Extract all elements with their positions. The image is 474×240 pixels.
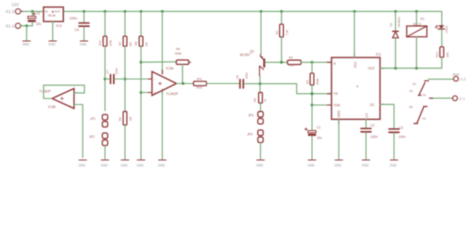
svg-text:K1: K1: [421, 17, 425, 21]
svg-text:C7: C7: [105, 69, 109, 73]
svg-text:JP3: JP3: [248, 114, 254, 118]
wire R5 to JP3: [260, 103, 262, 112]
wire feedback to output: [182, 65, 184, 84]
resistor R2 (vertical pull-up x=281.5): [281, 11, 283, 24]
svg-text:10u: 10u: [317, 136, 323, 140]
svg-text:+: +: [69, 105, 71, 109]
svg-text:THR: THR: [334, 103, 341, 107]
resistor R6 (divider bottom, x=125): [123, 112, 127, 126]
resistor R13 390 (vertical): [440, 47, 444, 57]
ground row: GND x=82.7: [79, 159, 86, 161]
ground GND x=312: [308, 159, 315, 161]
svg-text:7,2k: 7,2k: [285, 29, 289, 35]
wire R10 to C8: [207, 83, 240, 85]
svg-text:1,2k: 1,2k: [289, 63, 295, 67]
wire contact to X2-2: [429, 78, 454, 80]
ground GND x=366: [362, 159, 369, 161]
svg-text:O1: O1: [422, 93, 426, 97]
svg-text:100n: 100n: [115, 67, 119, 74]
wire IC3B +input to gnd: [74, 105, 83, 158]
svg-text:100n: 100n: [245, 72, 249, 79]
svg-text:1N4004: 1N4004: [397, 17, 401, 28]
svg-text:R13: R13: [435, 52, 439, 58]
wire feedback row: [141, 61, 176, 63]
node K1 coil bottom junction: [415, 67, 418, 70]
regulator IC4 box: [44, 7, 64, 21]
svg-text:GND: GND: [337, 110, 341, 118]
svg-text:K1: K1: [410, 89, 414, 93]
svg-text:X1-2: X1-2: [6, 9, 16, 14]
svg-text:BC557: BC557: [240, 53, 250, 57]
wire R3 to R junction: [301, 61, 312, 63]
svg-text:78L05: 78L05: [48, 13, 56, 17]
capacitor C8 100n (series, horizontal): [240, 80, 243, 89]
svg-text:VCC: VCC: [354, 61, 358, 68]
svg-text:S2: S2: [409, 105, 413, 109]
svg-text:GND: GND: [48, 42, 56, 46]
wire C8 to collector node and jog to TR row: [244, 84, 332, 94]
ground GND under IC4: [49, 40, 56, 42]
ground GND under X1: [23, 40, 30, 42]
svg-text:GND: GND: [158, 163, 166, 167]
wire JP2 to gnd: [104, 146, 106, 160]
emitter arrow: [260, 56, 263, 59]
wire base row to R2/R3: [265, 61, 287, 63]
svg-text:390: 390: [445, 52, 449, 57]
svg-text:1M: 1M: [129, 42, 133, 47]
node THR junction: [311, 104, 314, 107]
svg-text:TL062P: TL062P: [166, 92, 179, 96]
wire 555 DC pin to C3: [380, 104, 394, 128]
wire emitter to rail: [260, 11, 262, 54]
svg-text:TR: TR: [334, 92, 339, 96]
node C7 left junction: [104, 78, 107, 81]
svg-text:TL062P: TL062P: [39, 90, 52, 94]
svg-text:X1-1: X1-1: [6, 24, 16, 29]
svg-text:100n: 100n: [399, 135, 406, 139]
wire IC3B feedback loop: [44, 85, 85, 98]
svg-text:C3: C3: [399, 126, 403, 130]
svg-text:2-1: 2-1: [459, 96, 466, 101]
resistor R4 (vertical x=312): [311, 62, 313, 73]
connector X2-1: [453, 96, 458, 101]
resistor R9 600k (horizontal): [176, 60, 188, 64]
svg-text:K1: K1: [423, 117, 427, 121]
svg-text:300k: 300k: [316, 78, 320, 85]
node R4 top junction: [311, 61, 314, 64]
ground GND under C4: [80, 40, 87, 42]
svg-text:GND: GND: [362, 163, 370, 167]
node R9 tap junction: [140, 61, 143, 64]
node C7 right junction: [124, 78, 127, 81]
resistor R10 470 (horizontal): [194, 81, 207, 85]
diode D1 1N4004: [395, 11, 397, 31]
svg-text:+: +: [356, 84, 359, 89]
svg-text:R10: R10: [197, 86, 203, 90]
ground GND x=338.8: [335, 159, 342, 161]
svg-text:Q1: Q1: [250, 50, 255, 54]
node collector junction: [259, 82, 262, 85]
svg-text:C8: C8: [236, 75, 240, 79]
svg-text:GND: GND: [22, 42, 30, 46]
svg-text:GND: GND: [308, 163, 316, 167]
svg-text:IC3A: IC3A: [166, 67, 174, 71]
ground GND x=163.5: [159, 159, 166, 161]
svg-text:R11: R11: [98, 40, 102, 46]
svg-text:R7: R7: [118, 41, 122, 45]
capacitor C3 100n: [389, 129, 399, 132]
wire C7 to -input: [115, 78, 153, 80]
svg-text:S1: S1: [413, 82, 417, 86]
wire gnd drop: [26, 26, 28, 41]
svg-text:R5: R5: [253, 98, 257, 102]
wire X1-1 to C5 bottom: [21, 25, 33, 27]
svg-text:IC4: IC4: [56, 24, 62, 28]
capacitor C4 100n: [83, 11, 85, 22]
wire 555 VCC: [353, 11, 355, 57]
capacitor C5 10u electrolytic: [31, 11, 33, 16]
svg-text:R2: R2: [275, 30, 279, 34]
svg-text:R8: R8: [134, 41, 138, 45]
svg-text:IC1: IC1: [376, 53, 381, 57]
svg-text:+: +: [154, 91, 156, 95]
svg-text:R3: R3: [289, 56, 293, 60]
resistor R7 (x=125): [124, 11, 126, 36]
capacitor C1 10u electrolytic: [308, 131, 316, 133]
svg-text:IC3B: IC3B: [48, 105, 56, 109]
ground GND x=394: [390, 159, 397, 161]
capacitor C7 100n (series, horizontal): [105, 78, 110, 80]
op-amp IC3A triangle: [152, 72, 177, 96]
svg-text:C5: C5: [36, 12, 40, 16]
capacitor C2 100n: [361, 129, 371, 132]
ground GND x=125: [121, 159, 128, 161]
svg-text:OUT: OUT: [368, 67, 375, 71]
connector X2-2: [454, 76, 459, 81]
svg-text:DC: DC: [370, 103, 375, 107]
node +input junction: [140, 91, 143, 94]
svg-text:R9: R9: [176, 47, 180, 51]
svg-text:1M: 1M: [129, 116, 133, 121]
ground GND x=259.5: [257, 159, 264, 161]
svg-text:100n: 100n: [70, 17, 78, 21]
svg-text:12V: 12V: [12, 2, 20, 7]
svg-text:LED1: LED1: [444, 25, 448, 33]
svg-text:C2: C2: [371, 123, 375, 127]
svg-text:R4: R4: [305, 80, 309, 84]
svg-text:JP4: JP4: [247, 133, 253, 137]
svg-text:GND: GND: [78, 163, 86, 167]
svg-text:600k: 600k: [175, 51, 182, 55]
svg-text:1k: 1k: [263, 98, 267, 102]
node base/R2 junction: [280, 61, 283, 64]
wire R8 down to gnd: [140, 46, 142, 159]
wire collector down to R5: [259, 76, 261, 92]
svg-text:JP1: JP1: [90, 117, 96, 121]
wire rail from IC4 out to right corner: [63, 11, 442, 25]
svg-text:10u: 10u: [36, 22, 42, 26]
resistor R5 1k (vertical): [259, 93, 263, 104]
svg-text:C4: C4: [75, 28, 79, 32]
svg-text:R6: R6: [118, 117, 122, 121]
wire +input row: [141, 92, 152, 94]
wire 555 OUT to relay node: [380, 67, 442, 69]
wire IC4 gnd pin: [52, 22, 54, 41]
svg-text:JP2: JP2: [89, 135, 95, 139]
svg-text:GND: GND: [334, 163, 342, 167]
svg-text:100n: 100n: [371, 135, 378, 139]
wire +12V rail: [21, 10, 44, 12]
ground GND x=105: [101, 159, 108, 161]
node TR junction: [311, 92, 314, 95]
svg-text:1M: 1M: [145, 42, 149, 47]
svg-text:GND: GND: [256, 163, 264, 167]
wire 555 GND pin: [338, 119, 340, 159]
LED LED1: [438, 25, 444, 29]
wire THR row: [312, 104, 332, 106]
svg-text:GND: GND: [121, 163, 129, 167]
wire to X2-1: [433, 97, 453, 99]
svg-text:GND: GND: [390, 163, 398, 167]
svg-text:GND: GND: [101, 163, 109, 167]
svg-text:GND: GND: [137, 163, 145, 167]
svg-text:470: 470: [197, 77, 202, 81]
svg-text:C1: C1: [317, 126, 321, 130]
resistor R8 (x=141): [140, 11, 142, 36]
wire op-amp V+ drop x=163.5: [161, 11, 163, 74]
wire R4 bottom down across TR row to C1: [311, 85, 313, 130]
svg-text:GND: GND: [80, 42, 88, 46]
wire JP4 to gnd: [260, 143, 262, 160]
node rail junction dots: [31, 10, 418, 13]
wire divider mid: [104, 46, 106, 110]
svg-text:D1: D1: [389, 22, 393, 26]
555 pin stubs: [327, 53, 384, 123]
node X1-1 gnd junction: [25, 24, 28, 27]
ground GND x=141: [137, 159, 144, 161]
wire output: [177, 83, 194, 85]
IC1 NE555 box: [332, 58, 381, 120]
wire V- stub down to gnd: [161, 91, 163, 159]
wire to 555 R pin: [312, 61, 332, 63]
wire 555 CV pin to C2: [365, 119, 367, 127]
op-amp IC3B triangle (points left): [52, 89, 74, 109]
resistor R11 (divider top, x=105): [104, 11, 106, 36]
svg-text:2-2: 2-2: [460, 77, 467, 82]
node output junction: [182, 82, 185, 85]
node D1 bottom junction: [394, 67, 397, 70]
svg-text:120k: 120k: [109, 39, 113, 46]
resistor R3 (horizontal): [288, 60, 302, 64]
relay K1 coil: [416, 11, 418, 26]
